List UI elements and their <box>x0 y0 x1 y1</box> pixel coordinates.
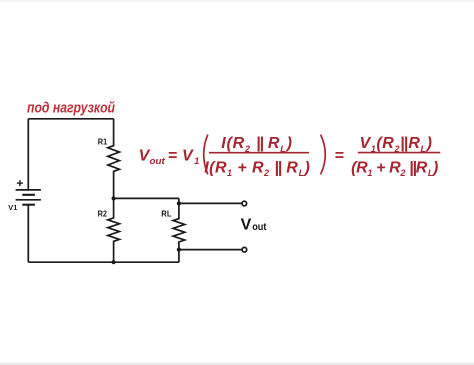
svg-text:V1: V1 <box>8 203 17 212</box>
svg-text:1: 1 <box>194 156 199 166</box>
svg-text:под нагрузкой: под нагрузкой <box>27 101 115 117</box>
svg-text:out: out <box>252 222 267 233</box>
wire top <box>28 118 113 120</box>
junction node RL bottom output <box>177 248 181 252</box>
resistor R2 <box>108 198 120 262</box>
wire output top <box>179 202 242 204</box>
junction node bottom R2 <box>112 260 116 264</box>
formula fraction bar 2 <box>358 152 441 154</box>
formula big left paren <box>204 135 208 175</box>
battery plus sign <box>17 180 23 186</box>
svg-text:=: = <box>168 148 177 165</box>
svg-text:V: V <box>241 217 252 234</box>
junction node R1/R2 <box>112 196 116 200</box>
svg-text:out: out <box>150 156 166 166</box>
wire node A (R1-R2 junction to RL top) <box>114 197 179 199</box>
wire bottom <box>28 261 179 263</box>
junction node RL top output <box>177 201 181 205</box>
svg-text:R1: R1 <box>98 136 108 146</box>
svg-text:=: = <box>335 148 344 165</box>
svg-text:(R1 + R2 ||RL): (R1 + R2 ||RL) <box>351 160 438 179</box>
wire left (battery bottom lead) <box>27 205 29 263</box>
battery V1 plates <box>16 190 41 205</box>
formula big right paren <box>321 135 326 175</box>
formula Vout term <box>139 135 441 179</box>
terminal bottom (open circle) <box>242 247 247 252</box>
wire left (battery top lead) <box>27 119 29 190</box>
svg-text:V: V <box>182 148 194 165</box>
wire output bottom <box>179 249 242 251</box>
svg-text:I(R1 + R2 || RL): I(R1 + R2 || RL) <box>204 160 310 179</box>
terminal top (open circle) <box>242 201 247 206</box>
resistor RL <box>173 198 185 262</box>
resistor R1 <box>108 119 120 199</box>
svg-text:R2: R2 <box>98 209 108 219</box>
svg-text:RL: RL <box>161 209 171 219</box>
formula fraction bar 1 <box>209 152 309 154</box>
